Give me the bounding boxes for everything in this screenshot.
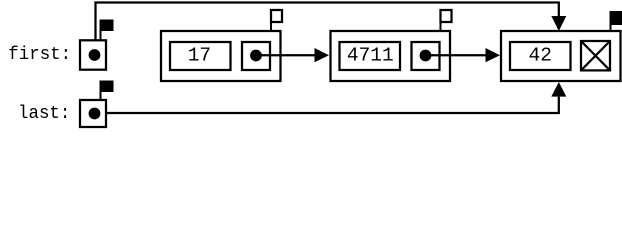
node3 null cross bbox=[581, 41, 610, 70]
node3 flag (filled) bbox=[610, 11, 622, 25]
wire first->node3 (up, across top, down with arrow) bbox=[96, 3, 559, 52]
node2 outer box bbox=[331, 31, 451, 81]
node 3 (42) bbox=[501, 31, 621, 81]
node 1 (17) bbox=[161, 31, 281, 81]
node2 value box bbox=[340, 42, 401, 70]
dot in last box bbox=[89, 108, 101, 120]
arrowhead into node2 bbox=[315, 48, 330, 62]
arrowhead into node3 bbox=[486, 48, 501, 62]
arrowhead into node3 top bbox=[551, 16, 566, 31]
node1 outer box bbox=[161, 31, 281, 81]
node1 value box bbox=[170, 42, 231, 70]
node3 flag pole bbox=[610, 11, 612, 31]
arrowhead into node3 bottom bbox=[551, 82, 566, 97]
node1 flag (open) bbox=[271, 10, 282, 22]
node3 value box bbox=[510, 42, 571, 70]
flag pole on last box bbox=[100, 81, 102, 101]
svg-text:4711: 4711 bbox=[347, 45, 394, 67]
node2 dot bbox=[420, 50, 432, 62]
pointer box first bbox=[80, 40, 106, 69]
node3 outer box bbox=[501, 31, 621, 81]
node3 null box bbox=[581, 41, 610, 70]
svg-text:17: 17 bbox=[188, 45, 211, 67]
svg-text:first:: first: bbox=[8, 45, 71, 65]
flag (filled) on first box bbox=[100, 20, 114, 32]
node2 flag (open) bbox=[441, 10, 452, 22]
node2 pointer box bbox=[412, 42, 440, 70]
node1 flag pole bbox=[270, 22, 272, 31]
wire node2->node3 bbox=[426, 54, 487, 56]
node2 flag pole bbox=[440, 22, 442, 31]
wire node1->node2 bbox=[256, 54, 316, 56]
pointer box last bbox=[80, 100, 106, 127]
wire last->node3 (right, up with arrow) bbox=[95, 95, 559, 113]
node1 dot bbox=[250, 50, 262, 62]
svg-text:42: 42 bbox=[528, 45, 551, 67]
dot in first box bbox=[89, 49, 101, 61]
svg-text:last:: last: bbox=[18, 104, 70, 124]
node 2 (4711) bbox=[331, 31, 451, 81]
flag pole on first box bbox=[100, 20, 102, 41]
node1 pointer box bbox=[242, 42, 270, 70]
flag (filled) on last box bbox=[100, 81, 114, 93]
